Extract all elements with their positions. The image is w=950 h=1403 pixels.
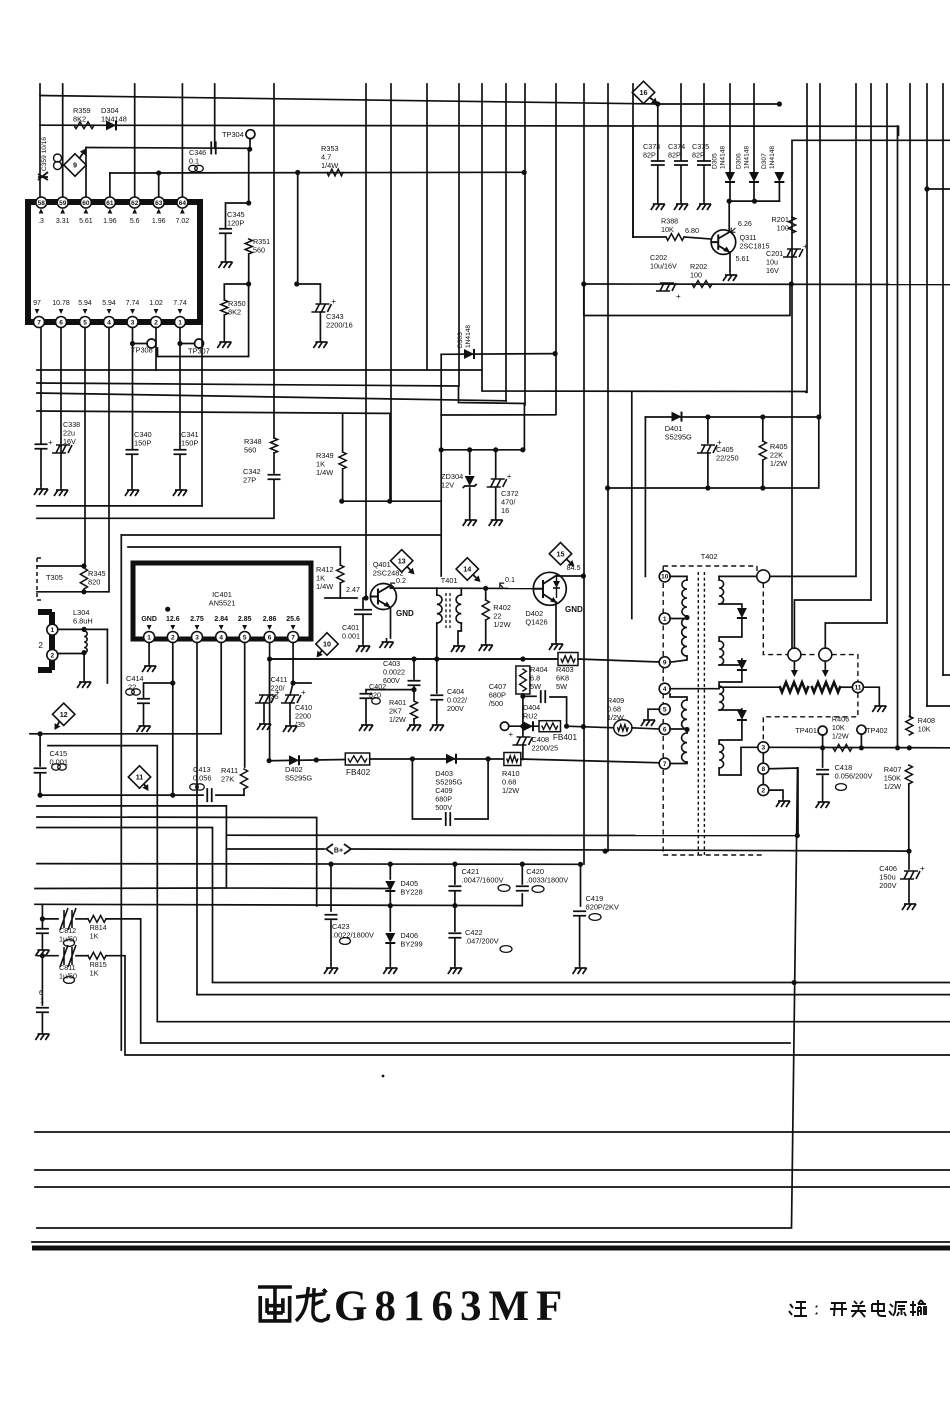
junction <box>452 862 457 867</box>
junction <box>705 414 710 419</box>
capacitor C407 <box>541 690 546 703</box>
label D303 <box>457 325 472 348</box>
svg-text:.0033/1800V: .0033/1800V <box>526 876 568 885</box>
ground C419 <box>579 964 581 968</box>
svg-text:2200/16: 2200/16 <box>326 321 353 330</box>
inductor T402 s4 <box>719 744 723 768</box>
pin 3 T402 <box>758 742 769 753</box>
junction <box>294 281 299 286</box>
wire S5 line <box>37 863 581 866</box>
capacitor C812 sym <box>60 908 76 930</box>
wire C338 col <box>60 446 62 452</box>
wire x584 down <box>583 284 585 864</box>
svg-text:5.94: 5.94 <box>78 300 92 307</box>
wire C406 down <box>908 879 910 900</box>
label C410 <box>295 703 312 729</box>
wire C407 right <box>550 697 567 726</box>
capacitor C342 <box>268 475 281 480</box>
potentiometer focus <box>812 682 840 692</box>
svg-text:8K2: 8K2 <box>73 115 86 124</box>
resistor R348 <box>270 438 277 453</box>
svg-text:5.6: 5.6 <box>130 218 140 225</box>
svg-text:0.1: 0.1 <box>505 575 515 584</box>
transistor Q401 <box>370 584 396 610</box>
pin voltage 5.61 <box>84 209 89 214</box>
wire R349 bot <box>342 469 344 501</box>
svg-text:TP402: TP402 <box>866 726 888 735</box>
wire D406 col <box>389 906 391 931</box>
pin voltage 3.31 <box>60 209 65 214</box>
wire C409 loop <box>412 759 441 819</box>
svg-text:11: 11 <box>854 685 861 692</box>
node 14 diamond <box>456 558 478 580</box>
polarity mark C415 <box>52 764 67 770</box>
wire L304 bot <box>58 653 84 655</box>
wire y888 left <box>35 887 226 890</box>
capacitor C421 <box>448 886 461 891</box>
wire C411 link <box>269 659 271 695</box>
wire C372 lead2 <box>495 488 497 516</box>
wire pin6 row line <box>270 643 559 660</box>
wire w3 bot <box>670 762 687 764</box>
svg-text:10: 10 <box>661 574 669 581</box>
ground C374 <box>680 200 682 204</box>
wire C420 col <box>521 864 523 884</box>
transformer T402 frame <box>663 566 763 855</box>
label D304 <box>101 106 127 124</box>
wire d1 down <box>719 619 742 641</box>
junction <box>789 281 794 286</box>
wire s1 tap <box>719 604 742 607</box>
label R403 <box>556 665 574 691</box>
wire pin5 lead <box>648 709 659 716</box>
label R406 10K <box>832 715 849 741</box>
svg-text:.3: .3 <box>38 218 44 225</box>
svg-text:10: 10 <box>323 640 331 649</box>
wire R201 col <box>791 140 793 648</box>
wire C409 loop b <box>455 759 488 819</box>
svg-text:TP308: TP308 <box>131 346 153 355</box>
ground pin11 <box>878 702 880 706</box>
svg-text:D305: D305 <box>712 153 719 169</box>
svg-text:13: 13 <box>398 556 406 565</box>
label R350 <box>228 299 246 317</box>
inductor T402 w2 <box>682 618 687 656</box>
label C403 <box>383 659 405 685</box>
polarity mark C346 <box>189 165 204 171</box>
svg-text:1/4W: 1/4W <box>321 161 338 170</box>
diode T402 d1 <box>737 608 747 618</box>
wire C403 col <box>413 659 415 679</box>
wire C403-R401 <box>413 686 415 700</box>
pin voltage 7.02 <box>180 209 185 214</box>
label R349 <box>316 451 334 477</box>
label C423 <box>332 922 374 940</box>
svg-text:820: 820 <box>88 578 100 587</box>
inductor T402 w3b <box>682 700 687 729</box>
label D405 <box>400 879 422 897</box>
wire FB401 right <box>567 726 614 728</box>
wire D303 line <box>441 353 555 356</box>
svg-text:1/2W: 1/2W <box>832 731 849 740</box>
junction <box>291 680 296 685</box>
wire pin6 lead <box>670 729 687 733</box>
wire vertical x807 to D401 box <box>806 84 808 392</box>
label C375 <box>692 142 709 159</box>
pin 2 connector <box>47 650 58 661</box>
diode D402 S5295G <box>289 755 299 765</box>
svg-text:FB402: FB402 <box>346 768 371 777</box>
wire H2 R359 D304 line <box>40 125 899 135</box>
polarity mark C423 <box>340 938 351 945</box>
svg-text:Q1426: Q1426 <box>525 618 547 627</box>
wire H1 top rail <box>40 96 658 105</box>
wire C346 TP304 line <box>86 147 249 150</box>
svg-text:.22: .22 <box>126 683 136 692</box>
wire C812 line <box>42 918 58 920</box>
label R202 <box>690 262 707 279</box>
junction <box>82 627 87 632</box>
resistor R349 <box>339 452 346 469</box>
title 画 <box>258 1287 292 1321</box>
wire R353 line <box>110 171 524 174</box>
wire D305 down <box>729 183 731 201</box>
label TP402 <box>866 726 888 735</box>
capacitor C413 <box>207 788 212 802</box>
wire D401 top riser <box>805 391 807 394</box>
svg-text:150P: 150P <box>134 439 151 448</box>
wire main right vertical <box>37 768 798 1228</box>
ground C401 <box>362 642 364 646</box>
pin 1 connector <box>47 624 58 635</box>
pin voltage .3 <box>39 209 44 214</box>
svg-text:+: + <box>48 438 53 447</box>
resistor R388 <box>666 234 684 241</box>
wire s2 tap <box>719 659 742 665</box>
wire R351 down <box>248 254 250 284</box>
wire C375 col <box>703 126 705 160</box>
svg-text:TP307: TP307 <box>188 347 210 356</box>
wire C423 col <box>330 864 332 911</box>
wire C418 col <box>822 748 824 767</box>
svg-text:82P: 82P <box>668 150 681 159</box>
label R412 <box>316 565 334 591</box>
wire pin5 drop <box>244 643 246 768</box>
junction <box>40 916 45 921</box>
wire FB402 right <box>370 758 504 760</box>
svg-text:+: + <box>803 242 808 251</box>
label D401 <box>665 424 692 442</box>
svg-text:0.1: 0.1 <box>189 156 199 165</box>
junction <box>439 447 444 452</box>
svg-text:2: 2 <box>38 641 43 650</box>
junction <box>520 656 525 661</box>
wire R401 down <box>413 719 415 721</box>
wire pin4 lead <box>670 688 719 690</box>
wire C405 lead2 <box>707 453 709 488</box>
ground R350 <box>223 338 225 342</box>
pin 1 IC401 <box>144 632 155 643</box>
svg-text:10K: 10K <box>918 724 931 733</box>
wire pin8-2 <box>762 774 764 784</box>
diode T402 d2 <box>737 660 747 670</box>
label R409 <box>607 696 624 722</box>
connector P? thick bracket <box>38 612 52 670</box>
wire R350 down <box>223 315 225 338</box>
terminal circle pot2 <box>819 648 832 661</box>
resistor R401 <box>410 701 417 719</box>
wire sec out <box>741 747 758 775</box>
wire C343 down <box>319 312 321 338</box>
svg-text:3.31: 3.31 <box>56 218 70 225</box>
svg-text:1N4148: 1N4148 <box>465 325 472 348</box>
capacitor C410 <box>281 695 301 703</box>
wire R409 right <box>632 728 660 729</box>
label R411 <box>221 766 238 784</box>
wire C411 down <box>263 703 265 720</box>
junction <box>434 656 439 661</box>
label C415 <box>50 749 69 767</box>
junction <box>247 147 252 152</box>
pin 63 IC301 <box>153 197 164 208</box>
svg-text:12.6: 12.6 <box>166 616 180 623</box>
label R201 100 <box>771 215 789 233</box>
label R353 <box>321 144 339 170</box>
wire C408 down <box>522 745 524 760</box>
wire TP307 link <box>158 284 249 357</box>
svg-text:5.94: 5.94 <box>102 300 116 307</box>
junction <box>564 724 569 729</box>
wire T401 right bot <box>458 623 461 642</box>
wire pin3 drop <box>132 328 134 450</box>
wire vertical x633 to Q311 base <box>632 84 634 237</box>
wire C343 branch <box>297 173 299 285</box>
junction <box>581 724 586 729</box>
pin 7 T402 <box>659 758 670 769</box>
wire C345 col <box>248 149 250 203</box>
pin 10 T402 <box>659 571 670 582</box>
wire vertical x584 top <box>583 84 585 284</box>
wire C373 col <box>657 104 659 160</box>
svg-text:60: 60 <box>82 200 90 207</box>
pin 1 T402 <box>659 613 670 624</box>
junction <box>38 731 43 736</box>
wire line y547 <box>128 546 340 548</box>
wire C415 down <box>39 774 41 795</box>
wire bottom line 3 <box>35 1186 950 1188</box>
ground C373 <box>657 200 659 204</box>
wire Q311 frame <box>584 284 790 316</box>
svg-text:8: 8 <box>761 766 765 773</box>
ground C343 <box>319 338 321 342</box>
junction <box>684 727 689 732</box>
pin 4 IC301 bottom <box>104 317 115 328</box>
polarity mark C418 <box>836 784 847 791</box>
wire Q401 collector <box>390 586 392 588</box>
svg-text:150P: 150P <box>181 439 198 448</box>
svg-text:6.26: 6.26 <box>738 219 752 228</box>
resistor R350 <box>221 300 228 315</box>
wire diode join <box>729 200 779 202</box>
svg-text:9: 9 <box>663 660 667 667</box>
wire C408 branch <box>522 726 524 736</box>
wire vertical x944 <box>942 84 944 675</box>
pin 59 IC301 <box>57 197 68 208</box>
label R410 <box>502 769 520 795</box>
svg-text:2200/25: 2200/25 <box>532 744 559 753</box>
wire C423 down <box>330 921 332 964</box>
svg-text:+: + <box>331 297 336 306</box>
wire vertical x730 D305 col <box>729 84 731 172</box>
diode D404 RU2 <box>523 721 533 731</box>
svg-text:16: 16 <box>640 88 648 97</box>
wire vertical x887 to pot2 line <box>886 84 888 623</box>
wire w2 bot <box>670 656 687 662</box>
wire vertical x391 to node <box>390 84 392 501</box>
svg-text:5.61: 5.61 <box>736 254 750 263</box>
label C422 <box>465 928 499 946</box>
label C372 <box>501 489 519 515</box>
wire S1 line <box>40 794 203 796</box>
svg-text:1: 1 <box>147 634 151 641</box>
ground D406 <box>389 964 391 968</box>
svg-text:TP304: TP304 <box>222 130 244 139</box>
pin 2 IC301 bottom <box>151 317 162 328</box>
svg-text:82P: 82P <box>643 150 656 159</box>
svg-text:6: 6 <box>663 726 667 733</box>
junction <box>411 656 416 661</box>
svg-text:S5295G: S5295G <box>285 774 312 783</box>
ground C337 <box>40 485 42 489</box>
ground C372 <box>495 516 497 520</box>
capacitor C346 <box>211 141 216 154</box>
wire C341 down <box>179 455 181 486</box>
label R401 <box>389 698 406 724</box>
diode D304 <box>106 120 116 130</box>
junction <box>130 341 135 346</box>
svg-text:BY228: BY228 <box>400 888 422 897</box>
capacitor C404 <box>430 695 443 700</box>
label T402 <box>701 552 718 561</box>
wire D402 emitter <box>555 602 557 640</box>
wire vertical x681 C374 col top <box>680 84 682 126</box>
wire vertical x608 B+ feed <box>607 84 609 851</box>
svg-text:5.61: 5.61 <box>79 218 93 225</box>
junction <box>246 200 251 205</box>
ground Q311 <box>729 271 731 275</box>
resistor R405 <box>759 441 766 460</box>
svg-text:0.056/200V: 0.056/200V <box>835 772 873 781</box>
junction <box>906 849 911 854</box>
polarity mark C420 <box>532 886 544 893</box>
wire vertical x525 <box>524 84 526 405</box>
junction <box>553 351 558 356</box>
svg-text:1/4W: 1/4W <box>316 582 333 591</box>
wire TP308 lead <box>133 343 148 345</box>
wire bottom line 1 <box>35 1131 950 1133</box>
svg-text:B+: B+ <box>334 848 343 855</box>
capacitor C415 <box>34 768 47 773</box>
svg-text:1.96: 1.96 <box>103 218 117 225</box>
svg-text:5W: 5W <box>530 682 541 691</box>
pin 62 IC301 <box>129 197 140 208</box>
wire pin7 drop IC401 <box>292 643 294 684</box>
svg-text:6: 6 <box>39 990 43 997</box>
wire pot rail <box>719 686 780 688</box>
wire C340 down <box>131 455 133 486</box>
svg-text:1: 1 <box>40 998 44 1005</box>
inductor T401 secondary <box>456 595 461 623</box>
wire D306 down <box>753 183 755 201</box>
border bottom thick <box>32 1246 950 1251</box>
label C343 <box>326 312 353 330</box>
capacitor C423 <box>325 915 338 920</box>
pin 5 IC401 <box>239 632 250 643</box>
svg-text:200V: 200V <box>879 881 896 890</box>
wire C419 down <box>579 917 581 964</box>
svg-text:1N4148: 1N4148 <box>101 115 127 124</box>
wire pin64 top <box>181 84 183 197</box>
capacitor C420 <box>516 886 529 891</box>
svg-text:2: 2 <box>50 652 54 659</box>
wire T305 top <box>37 565 84 567</box>
capacitor C422 <box>448 933 461 938</box>
inductor L304 <box>84 631 87 653</box>
wire d3 down <box>719 721 742 744</box>
svg-text:14: 14 <box>463 565 471 574</box>
svg-text:T401: T401 <box>441 576 458 585</box>
svg-text:3: 3 <box>761 745 765 752</box>
junction <box>267 758 272 763</box>
testpoint TP402 <box>857 725 866 734</box>
svg-text:820P/2KV: 820P/2KV <box>586 903 619 912</box>
wire C404 col <box>436 659 438 693</box>
wire C345 down <box>225 234 227 258</box>
IC U301 body <box>28 202 200 322</box>
junction <box>267 656 272 661</box>
junction <box>339 499 344 504</box>
ground C422 <box>454 964 456 968</box>
svg-text:7: 7 <box>663 761 667 768</box>
junction <box>388 903 393 908</box>
svg-text:120P: 120P <box>227 219 244 228</box>
junction <box>605 485 610 490</box>
resistor R402 <box>482 600 489 620</box>
wire C811 line <box>38 955 59 957</box>
svg-text:3: 3 <box>195 634 199 641</box>
wire R388 west frame <box>632 126 634 237</box>
wire C421 col <box>454 864 456 884</box>
svg-text:+: + <box>507 472 512 481</box>
inductor T402 s2 <box>719 641 723 665</box>
wire pin7 drop <box>40 328 42 445</box>
wire T305 bot <box>37 591 109 593</box>
junction <box>581 573 586 578</box>
wire C414 down <box>143 704 145 722</box>
polarity mark C812 <box>64 940 75 947</box>
label Q401 <box>373 560 404 578</box>
wire TP307 lead <box>180 343 195 345</box>
label R405 <box>770 442 788 468</box>
node 15 diamond <box>549 542 571 564</box>
wire vertical x704 C375 col top <box>703 84 705 126</box>
svg-text:1N4148: 1N4148 <box>744 146 751 169</box>
capacitor C201 <box>783 249 803 257</box>
label R408 10K <box>918 716 935 733</box>
wire pin60 riser <box>85 148 87 198</box>
svg-text:62: 62 <box>131 200 139 207</box>
wire bus B5 D303 link <box>441 414 555 416</box>
